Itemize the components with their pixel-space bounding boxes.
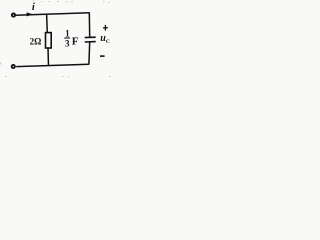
capacitor top plate [85,36,96,38]
svg-text:C: C [106,39,110,45]
svg-text:3: 3 [65,38,70,48]
wire resistor branch lower [47,48,50,66]
plus sign [103,27,108,29]
current arrow i [27,12,33,16]
bottom wire [16,64,89,66]
wire right edge upper [88,12,90,37]
terminal top-left [12,14,15,17]
resistor R 2ohm box [46,33,52,48]
terminal bottom-left [12,65,15,68]
minus sign [100,55,105,57]
svg-text:1: 1 [65,28,70,38]
svg-text:F: F [72,35,79,47]
capacitor bottom plate [85,41,96,43]
wire right edge lower [88,42,91,65]
svg-text:i: i [32,2,35,13]
wire resistor branch upper [46,14,49,33]
fraction bar [64,37,70,39]
svg-text:2Ω: 2Ω [30,37,42,47]
top wire [16,13,90,16]
